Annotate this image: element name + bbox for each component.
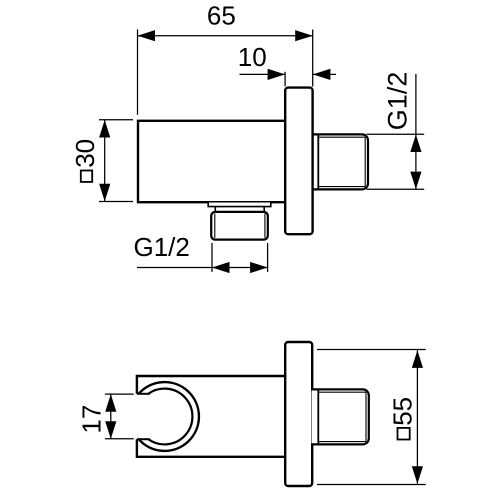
svg-text:30: 30 [70,139,100,168]
dimension 30 arrow down [99,184,110,202]
dimension 10 line left [240,73,285,75]
dimension G1/2 bottom line [137,267,268,269]
dimension 17 extension bottom [105,438,134,440]
dimension 17 extension top [105,393,134,395]
holder ring outer arc [139,382,199,451]
dimension G1/2 bottom arrow right [250,262,268,273]
connector G1/2 (right, bottom view) [312,389,369,444]
dimension 30 extension bottom [99,201,133,203]
wall flange (top view) [285,88,312,235]
dimension 55 arrow up [412,350,423,368]
dimension 10 arrow left [268,69,286,80]
outlet thread chamfer right [264,214,266,238]
svg-text:G1/2: G1/2 [134,232,190,262]
dimension 17 line [110,394,112,439]
connector chamfer lines [318,137,365,186]
svg-text:G1/2: G1/2 [382,72,412,131]
dimension 65 arrow right [295,30,313,41]
holder slot top edge [137,393,150,395]
dimension 65 extension right [312,30,314,87]
dimension G1/2 right extension bottom [367,188,425,190]
svg-text:17: 17 [76,405,106,434]
dimension G1/2 right arrow down [410,172,421,190]
dimension 55 extension top [317,349,426,351]
holder ring inner arc [148,389,192,445]
holder bracket body [137,376,286,457]
outlet shoulder (bottom of body) [208,203,271,207]
dimension 65 arrow left [138,30,156,41]
connector chamfer lines (bottom view) [318,392,366,441]
body rect (side view of elbow body) [138,121,286,202]
dimension G1/2 bottom extension left [211,243,213,272]
outlet neck left [214,207,216,212]
outlet neck right [263,207,265,212]
svg-text:55: 55 [387,397,417,426]
dimension 17 arrow down [105,421,116,439]
dimension 10 line right [313,73,336,75]
dimension 65 extension left [137,30,139,115]
dimension 30 line [104,120,106,202]
svg-text:10: 10 [238,42,267,72]
dimension G1/2 right line [415,74,417,190]
dimension G1/2 bottom extension right [267,243,269,272]
dimension 10 extension [284,72,286,87]
dimension 30 arrow up [99,120,110,138]
dimension square55 symbol [398,428,410,440]
connector G1/2 (right, top view) [312,134,369,189]
dimension 10 arrow right [313,69,331,80]
connector shoulder line [317,134,319,189]
wall flange (bottom view) [285,342,312,486]
dimension 55 extension bottom [317,484,426,486]
holder slot bottom edge [137,438,150,440]
dimension 55 line [416,350,418,483]
dimension 17 arrow up [105,394,116,412]
outlet thread chamfer left [214,214,216,238]
dimension 55 arrow down [412,466,423,484]
outlet thread G1/2 [211,212,268,240]
dimension G1/2 right extension top [367,133,425,135]
dimension G1/2 right arrow up [410,135,421,153]
dimension G1/2 bottom arrow left [212,262,230,273]
dimension square30 symbol [81,171,92,182]
svg-text:65: 65 [207,1,236,31]
dimension 65 line [138,35,313,37]
dimension 30 extension top [99,119,133,121]
connector shoulder line (bottom view) [317,389,319,444]
